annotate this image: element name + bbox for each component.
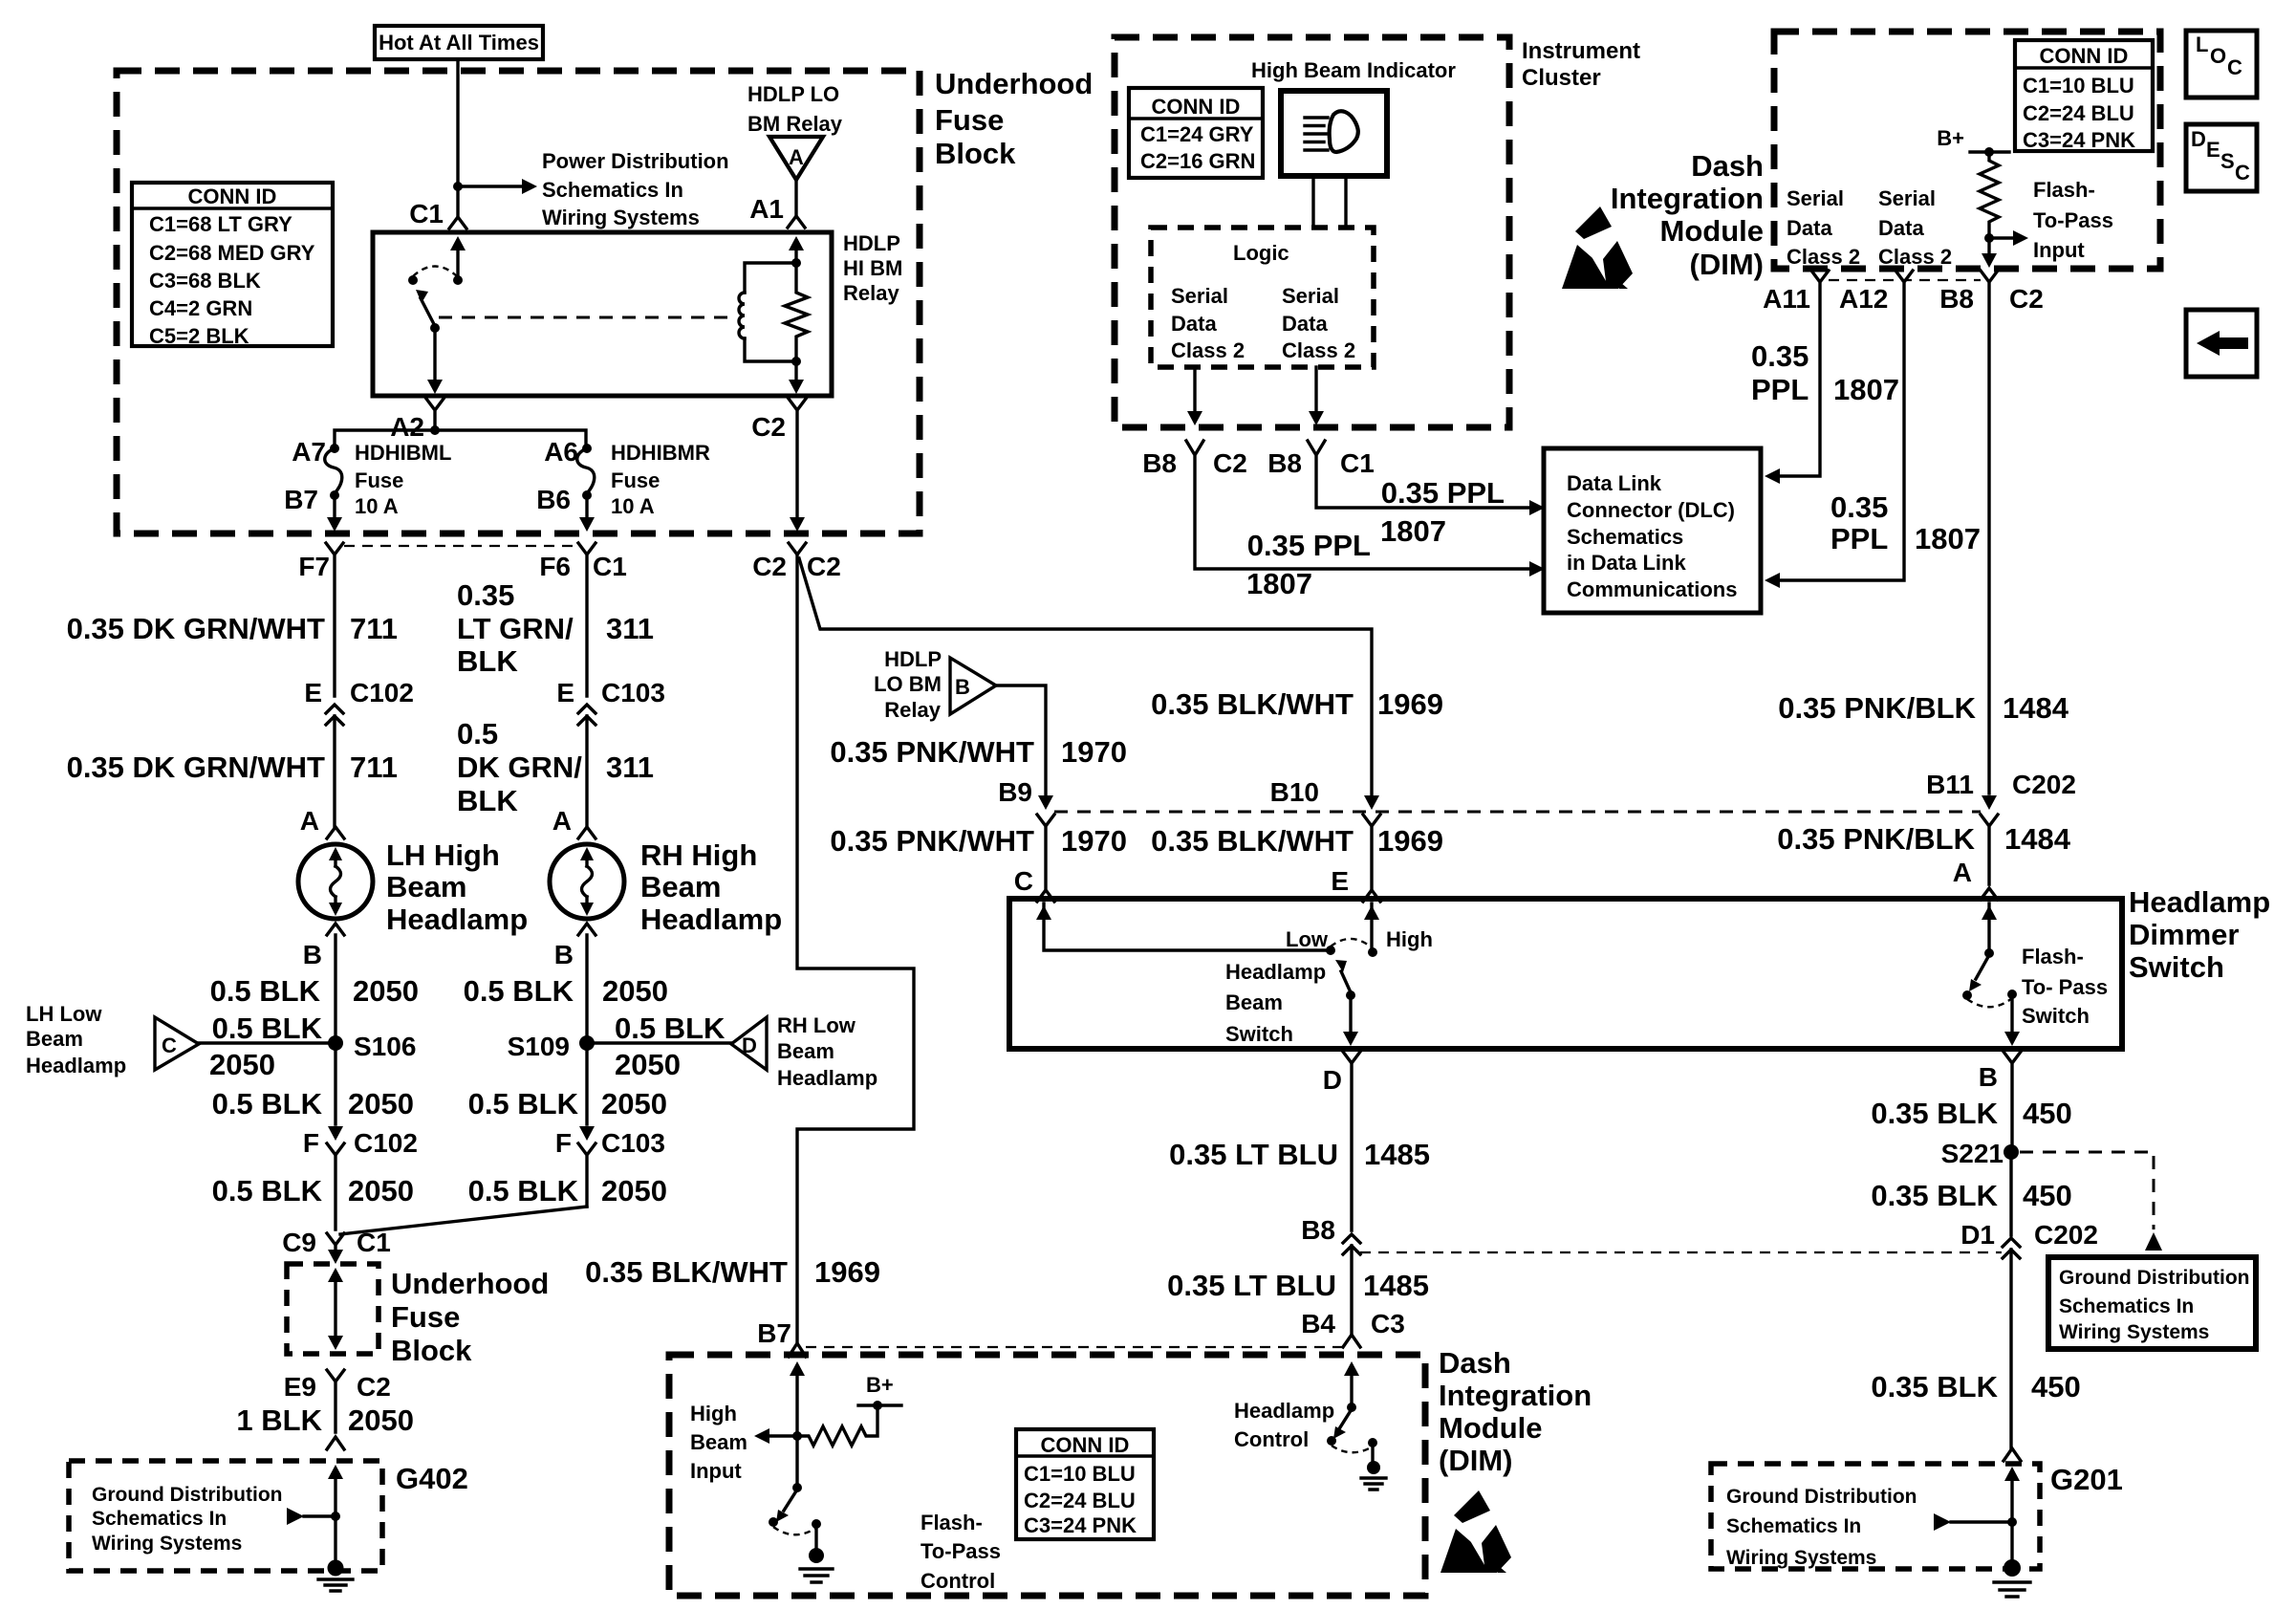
- svg-text:C202: C202: [2034, 1220, 2098, 1250]
- svg-text:0.5 BLK: 0.5 BLK: [464, 974, 574, 1008]
- DESC reference box: [2186, 124, 2257, 191]
- lamp RH High Beam Headlamp: [550, 844, 624, 919]
- data link connector DLC box: [1544, 448, 1761, 613]
- svg-text:Beam: Beam: [26, 1027, 83, 1051]
- svg-text:F: F: [555, 1128, 572, 1158]
- svg-text:0.35 PNK/BLK: 0.35 PNK/BLK: [1777, 822, 1975, 856]
- svg-text:A7: A7: [292, 437, 326, 467]
- svg-text:BM Relay: BM Relay: [747, 112, 843, 136]
- wire: tap down to pin B8 with arrow: [1987, 238, 1990, 254]
- contact High: [1368, 947, 1377, 957]
- svg-text:HDLP LO: HDLP LO: [747, 82, 839, 106]
- wire: logic to pin B8 C2: [1193, 367, 1196, 417]
- svg-text:Class 2: Class 2: [1878, 245, 1952, 269]
- svg-text:0.5 BLK: 0.5 BLK: [468, 1087, 579, 1120]
- svg-text:1484: 1484: [2004, 822, 2071, 856]
- DIM dashed box: [1774, 32, 2160, 269]
- flash-to-pass lower contact: [1962, 990, 1972, 1000]
- svg-text:PPL: PPL: [1830, 522, 1888, 555]
- splice S106: [328, 1035, 343, 1051]
- svg-text:Ground Distribution: Ground Distribution: [1726, 1486, 1917, 1508]
- flash-to-pass upper contact: [1984, 948, 1994, 958]
- relay switch movable blade: [421, 298, 435, 326]
- connector C202 thin dashed line (lower): [1360, 1251, 2002, 1253]
- wire: S106 to LH low beam headlamp triangle C: [199, 1041, 336, 1044]
- svg-text:A12: A12: [1839, 284, 1888, 314]
- DIM pin connector dashed line: [1829, 279, 1981, 281]
- svg-text:A: A: [552, 806, 572, 836]
- svg-text:Beam: Beam: [690, 1430, 747, 1454]
- svg-text:C2=16 GRN: C2=16 GRN: [1140, 149, 1255, 173]
- svg-text:B+: B+: [866, 1373, 894, 1397]
- wire through fuse block with arrows: [334, 1274, 336, 1337]
- flash-to-pass switch blade: [1976, 955, 1989, 979]
- svg-text:2050: 2050: [601, 1087, 667, 1120]
- logic dashed box: [1151, 228, 1374, 367]
- svg-text:E: E: [304, 678, 322, 707]
- flash-to-pass control upper contact: [792, 1483, 802, 1492]
- svg-text:C1=10 BLU: C1=10 BLU: [2023, 74, 2134, 98]
- svg-text:BLK: BLK: [457, 644, 518, 678]
- fuse HDHIBMR terminal B6: [582, 490, 592, 500]
- svg-text:0.35 BLK/WHT: 0.35 BLK/WHT: [1151, 824, 1354, 858]
- svg-text:B: B: [1979, 1062, 1998, 1092]
- wire: fuse B7 down to F7 with arrow: [333, 495, 336, 516]
- svg-text:Data: Data: [1878, 216, 1924, 240]
- node: high beam input junction: [792, 1431, 802, 1441]
- svg-text:10 A: 10 A: [611, 494, 655, 518]
- svg-text:CONN ID: CONN ID: [1152, 95, 1241, 119]
- svg-text:To- Pass: To- Pass: [2022, 975, 2108, 999]
- fuse HDHIBMR element: [577, 448, 595, 493]
- svg-text:0.5 BLK: 0.5 BLK: [468, 1174, 579, 1207]
- svg-text:C: C: [2235, 161, 2250, 185]
- connector to G201: [2004, 1448, 2021, 1461]
- svg-text:1485: 1485: [1363, 1269, 1429, 1302]
- svg-text:S: S: [2220, 149, 2235, 173]
- svg-text:0.35 BLK/WHT: 0.35 BLK/WHT: [585, 1255, 788, 1289]
- wire: logic to pin B8 C1: [1314, 367, 1317, 417]
- svg-text:G201: G201: [2050, 1463, 2123, 1496]
- svg-text:C1: C1: [409, 199, 444, 228]
- flash-to-pass control lower contact: [769, 1517, 778, 1527]
- svg-text:C1: C1: [593, 552, 627, 581]
- svg-text:0.35 BLK: 0.35 BLK: [1871, 1370, 1998, 1403]
- svg-text:C4=2 GRN: C4=2 GRN: [149, 296, 252, 320]
- svg-text:F6: F6: [539, 552, 571, 581]
- svg-text:2050: 2050: [209, 1048, 275, 1081]
- svg-text:2050: 2050: [348, 1174, 414, 1207]
- svg-text:C103: C103: [601, 1128, 665, 1158]
- svg-text:Wiring Systems: Wiring Systems: [1726, 1547, 1876, 1569]
- svg-text:Module: Module: [1439, 1411, 1543, 1445]
- svg-text:C1=10 BLU: C1=10 BLU: [1024, 1462, 1136, 1486]
- svg-text:1 BLK: 1 BLK: [236, 1403, 322, 1437]
- svg-text:Ground Distribution: Ground Distribution: [2059, 1267, 2249, 1289]
- svg-text:S109: S109: [508, 1032, 570, 1061]
- headlamp beam switch blade: [1341, 971, 1351, 992]
- svg-text:To-Pass: To-Pass: [2033, 208, 2113, 232]
- relay box HDLP HI BM Relay: [373, 232, 832, 396]
- wire: flash-to-pass contact to pin B with arrow: [2010, 994, 2013, 1033]
- svg-text:1969: 1969: [1377, 687, 1443, 721]
- svg-text:Connector (DLC): Connector (DLC): [1567, 498, 1735, 522]
- svg-text:B+: B+: [1937, 126, 1964, 150]
- relay switch alternate contact node: [408, 275, 418, 285]
- svg-text:Serial: Serial: [1878, 186, 1936, 210]
- ESD symbol near DIM: [1562, 207, 1633, 294]
- flash-to-pass output contact: [2007, 990, 2017, 999]
- svg-text:CONN ID: CONN ID: [188, 185, 277, 208]
- underhood fuse block dashed outline: [117, 71, 920, 533]
- svg-text:Schematics: Schematics: [1567, 525, 1683, 549]
- svg-text:LH High: LH High: [386, 838, 500, 872]
- wire: S109 to RH low beam headlamp triangle D: [587, 1041, 731, 1044]
- svg-text:C: C: [1014, 866, 1033, 896]
- node: A2 bus junction: [430, 425, 440, 435]
- flash-to-pass control ground contact: [812, 1519, 821, 1529]
- connector to G402: [327, 1437, 344, 1449]
- svg-text:B6: B6: [536, 485, 571, 514]
- svg-text:450: 450: [2023, 1097, 2072, 1130]
- arrow to flash-to-pass input: [1989, 236, 2015, 239]
- svg-text:S106: S106: [354, 1032, 416, 1061]
- triangle B HDLP LO BM Relay: [950, 658, 996, 714]
- svg-text:E9: E9: [284, 1372, 316, 1402]
- wire: battery feed from Hot At All Times down to relay C1: [456, 59, 459, 217]
- svg-text:Underhood: Underhood: [391, 1267, 549, 1300]
- svg-text:0.35 DK GRN/WHT: 0.35 DK GRN/WHT: [67, 751, 325, 784]
- svg-text:Serial: Serial: [1282, 284, 1339, 308]
- svg-text:Schematics In: Schematics In: [1726, 1515, 1861, 1537]
- ground G201 dashed box: [1711, 1464, 2040, 1569]
- back arrow box: [2186, 310, 2257, 377]
- flash-to-pass control throw dashed arc: [773, 1527, 816, 1534]
- svg-text:C2=24 BLU: C2=24 BLU: [2023, 101, 2134, 125]
- svg-text:Integration: Integration: [1611, 182, 1764, 215]
- svg-text:Dimmer: Dimmer: [2129, 918, 2239, 951]
- svg-text:DK GRN/: DK GRN/: [457, 751, 582, 784]
- svg-text:Serial: Serial: [1787, 186, 1844, 210]
- svg-text:0.5: 0.5: [457, 717, 498, 751]
- headlamp control lower contact: [1327, 1436, 1336, 1446]
- high beam indicator box: [1281, 91, 1387, 176]
- ESD symbol in DIM: [1440, 1490, 1511, 1578]
- svg-text:Dash: Dash: [1691, 149, 1764, 183]
- svg-text:Wiring Systems: Wiring Systems: [2059, 1321, 2209, 1343]
- svg-text:D: D: [2191, 127, 2206, 151]
- svg-text:Beam: Beam: [386, 870, 466, 903]
- svg-text:B4: B4: [1301, 1309, 1335, 1338]
- svg-text:C2: C2: [807, 552, 841, 581]
- svg-text:C1: C1: [1340, 448, 1375, 478]
- dashed ground reference from S221: [2020, 1152, 2154, 1229]
- svg-text:CONN ID: CONN ID: [2040, 44, 2129, 68]
- svg-text:1969: 1969: [814, 1255, 880, 1289]
- DIM bottom dashed box: [669, 1355, 1425, 1596]
- svg-text:BLK: BLK: [457, 784, 518, 817]
- svg-text:Fuse: Fuse: [935, 103, 1004, 137]
- CONN ID table (DIM): [2015, 40, 2153, 151]
- svg-text:A: A: [1953, 858, 1972, 887]
- fuse HDHIBML element: [325, 448, 342, 493]
- splice S109: [579, 1035, 595, 1051]
- svg-text:2050: 2050: [601, 1174, 667, 1207]
- svg-text:Schematics In: Schematics In: [92, 1508, 227, 1530]
- svg-text:450: 450: [2023, 1179, 2072, 1212]
- svg-text:Switch: Switch: [2022, 1004, 2090, 1028]
- svg-text:Flash-: Flash-: [2033, 178, 2095, 202]
- wire: C2 output down to C2 inline connector with arrow: [790, 517, 805, 532]
- arrow to high beam input: [766, 1434, 797, 1437]
- connector F6 female fork: [578, 543, 596, 696]
- svg-text:C1=24 GRY: C1=24 GRY: [1140, 122, 1254, 146]
- svg-text:Dash: Dash: [1439, 1346, 1511, 1380]
- CONN ID table (instrument cluster): [1129, 88, 1263, 178]
- svg-text:O: O: [2210, 44, 2226, 68]
- relay coil branch wire: [745, 263, 796, 293]
- svg-text:E: E: [2206, 138, 2220, 162]
- svg-text:E: E: [556, 678, 574, 707]
- svg-text:C103: C103: [601, 678, 665, 707]
- contact Low: [1326, 946, 1335, 955]
- wire: RH ground wire diagonal to C9 junction: [340, 1207, 587, 1234]
- relay coil windings: [739, 293, 745, 338]
- svg-text:CONN ID: CONN ID: [1041, 1433, 1130, 1457]
- svg-text:C2: C2: [2009, 284, 2044, 314]
- svg-text:0.35: 0.35: [1751, 339, 1809, 373]
- svg-text:C3: C3: [1371, 1309, 1405, 1338]
- svg-text:D: D: [742, 1033, 757, 1057]
- svg-text:A6: A6: [544, 437, 578, 467]
- triangle C LH low beam headlamp: [155, 1017, 199, 1070]
- wire: B4 headlamp control with up arrow: [1350, 1369, 1353, 1404]
- svg-text:1970: 1970: [1061, 824, 1127, 858]
- svg-text:C5=2 BLK: C5=2 BLK: [149, 324, 249, 348]
- svg-text:2050: 2050: [348, 1087, 414, 1120]
- svg-text:Hot At All Times: Hot At All Times: [379, 31, 539, 54]
- svg-text:D: D: [1323, 1065, 1342, 1095]
- svg-text:Control: Control: [921, 1569, 995, 1593]
- svg-text:F7: F7: [298, 552, 330, 581]
- svg-text:Instrument: Instrument: [1522, 38, 1640, 64]
- svg-text:Beam: Beam: [1225, 990, 1283, 1014]
- svg-text:Data Link: Data Link: [1567, 471, 1662, 495]
- svg-text:10 A: 10 A: [355, 494, 399, 518]
- ground distribution tap arrow (G201): [1934, 1513, 1951, 1531]
- svg-text:Logic: Logic: [1233, 241, 1289, 265]
- svg-text:0.5 BLK: 0.5 BLK: [615, 1012, 726, 1045]
- svg-text:0.5 BLK: 0.5 BLK: [212, 1012, 323, 1045]
- dashed mechanical link from switch to relay coil: [439, 316, 732, 319]
- svg-text:HI BM: HI BM: [843, 256, 902, 280]
- svg-text:0.35 BLK: 0.35 BLK: [1871, 1179, 1998, 1212]
- svg-text:Wiring Systems: Wiring Systems: [542, 206, 700, 229]
- svg-text:Cluster: Cluster: [1522, 65, 1601, 91]
- svg-text:Data: Data: [1282, 312, 1328, 336]
- node: coil bottom junction: [791, 357, 801, 366]
- headlamp control ground contact: [1368, 1438, 1377, 1447]
- svg-text:2050: 2050: [353, 974, 419, 1008]
- relay switch throw dashed arc: [413, 267, 457, 277]
- svg-text:Data: Data: [1171, 312, 1217, 336]
- pin A11 connector: [1775, 271, 1829, 476]
- lamp LH High Beam Headlamp: [298, 844, 373, 919]
- svg-text:0.35 PNK/WHT: 0.35 PNK/WHT: [830, 735, 1034, 769]
- fuse HDHIBML terminal A7: [330, 444, 339, 453]
- svg-text:HDHIBMR: HDHIBMR: [611, 441, 710, 465]
- svg-text:L: L: [2196, 33, 2208, 56]
- wire: triangle A to pin A1: [794, 180, 797, 214]
- svg-text:711: 711: [350, 751, 398, 784]
- svg-text:2050: 2050: [615, 1048, 681, 1081]
- svg-text:F: F: [303, 1128, 319, 1158]
- wire: fuse B6 down to F6 with arrow: [585, 495, 588, 516]
- svg-text:0.5 BLK: 0.5 BLK: [212, 1087, 323, 1120]
- svg-text:B: B: [303, 940, 322, 969]
- svg-text:A: A: [789, 145, 804, 169]
- svg-text:C1: C1: [357, 1228, 391, 1257]
- svg-text:Communications: Communications: [1567, 577, 1737, 601]
- svg-text:E: E: [1331, 866, 1349, 896]
- instrument cluster dashed box: [1115, 37, 1509, 427]
- svg-text:C2=68 MED GRY: C2=68 MED GRY: [149, 241, 315, 265]
- svg-text:1807: 1807: [1246, 567, 1312, 600]
- wire: S221 to D1: [2009, 1160, 2012, 1235]
- connector A1 female fork: [788, 216, 805, 228]
- svg-text:C: C: [162, 1033, 177, 1057]
- svg-text:Fuse: Fuse: [611, 468, 660, 492]
- svg-text:PPL: PPL: [1751, 373, 1809, 406]
- wire: relay blade to pin A2 with down arrow: [433, 328, 436, 381]
- Hot At All Times box: [375, 26, 543, 59]
- svg-text:Ground Distribution: Ground Distribution: [92, 1484, 282, 1506]
- svg-text:Schematics In: Schematics In: [2059, 1295, 2194, 1317]
- svg-text:Input: Input: [690, 1459, 742, 1483]
- ground stub of flash-to-pass control: [814, 1524, 817, 1547]
- wire: beam switch to pin D with arrow: [1349, 995, 1352, 1033]
- ground distribution tap arrow: [287, 1508, 304, 1525]
- svg-text:Headlamp: Headlamp: [1234, 1399, 1334, 1423]
- relay switch fixed contact node: [453, 275, 463, 285]
- svg-text:711: 711: [350, 612, 398, 645]
- svg-text:0.35 BLK: 0.35 BLK: [1871, 1097, 1998, 1130]
- pin A2 connector below relay: [426, 399, 444, 430]
- svg-text:A11: A11: [1763, 284, 1810, 314]
- svg-text:Headlamp: Headlamp: [1225, 960, 1326, 984]
- svg-text:1485: 1485: [1364, 1138, 1430, 1171]
- ground distribution note box (solid): [2048, 1257, 2256, 1349]
- arrow up at relay pin A1 inside box: [789, 236, 804, 250]
- svg-text:Wiring Systems: Wiring Systems: [92, 1533, 242, 1555]
- relay resistor element: [785, 241, 808, 361]
- svg-text:0.35 PPL: 0.35 PPL: [1381, 476, 1505, 510]
- svg-text:Module: Module: [1660, 214, 1765, 248]
- svg-text:A1: A1: [749, 194, 784, 224]
- triangle D RH low beam headlamp: [731, 1017, 767, 1070]
- headlamp dimmer switch box: [1009, 899, 2122, 1049]
- relay coil lower wire: [745, 338, 796, 361]
- flash-to-pass control blade: [784, 1490, 797, 1511]
- svg-text:LH Low: LH Low: [26, 1002, 102, 1026]
- svg-text:Headlamp: Headlamp: [2129, 885, 2270, 919]
- svg-text:High Beam Indicator: High Beam Indicator: [1251, 58, 1456, 82]
- svg-text:Integration: Integration: [1439, 1379, 1592, 1412]
- wire: tap to power distribution reference: [458, 185, 524, 187]
- svg-text:Low: Low: [1286, 927, 1329, 951]
- svg-text:0.35 PNK/BLK: 0.35 PNK/BLK: [1778, 691, 1976, 725]
- svg-text:A2: A2: [390, 412, 424, 442]
- svg-text:B9: B9: [998, 777, 1032, 807]
- fuse HDHIBML terminal B7: [330, 490, 339, 500]
- wire: coil bottom to pin C2 with down arrow: [794, 361, 797, 381]
- headlamp control upper contact: [1347, 1403, 1356, 1412]
- connector C1 female fork: [449, 217, 466, 228]
- svg-text:High: High: [1386, 927, 1433, 951]
- svg-text:1484: 1484: [2003, 691, 2069, 725]
- svg-text:C3=24 PNK: C3=24 PNK: [2023, 128, 2135, 152]
- svg-text:D1: D1: [1960, 1220, 1995, 1250]
- svg-text:C2: C2: [752, 552, 787, 581]
- headlamp beam switch throw dashed arc: [1331, 939, 1373, 948]
- svg-text:450: 450: [2031, 1370, 2081, 1403]
- svg-text:Headlamp: Headlamp: [777, 1066, 877, 1090]
- relay switch common wire with up arrow: [456, 241, 459, 280]
- CONN ID table (underhood fuse block): [132, 183, 333, 346]
- svg-text:Underhood: Underhood: [935, 67, 1093, 100]
- relay switch lower contact node: [430, 323, 440, 333]
- svg-text:B: B: [554, 940, 574, 969]
- svg-text:311: 311: [606, 612, 654, 645]
- svg-text:LO BM: LO BM: [874, 672, 942, 696]
- inline connector C2 C2 female fork: [789, 543, 806, 555]
- LOC reference box: [2186, 31, 2257, 98]
- svg-text:C102: C102: [354, 1128, 418, 1158]
- svg-text:Class 2: Class 2: [1282, 338, 1355, 362]
- svg-text:2050: 2050: [602, 974, 668, 1008]
- ground G402 dashed box: [69, 1461, 382, 1571]
- ground G402 symbol: [328, 1560, 344, 1577]
- svg-text:Fuse: Fuse: [391, 1300, 460, 1334]
- svg-text:RH Low: RH Low: [777, 1013, 856, 1037]
- ground G201 symbol: [2004, 1559, 2021, 1577]
- wire: junction to flash-to-pass control switch: [795, 1436, 798, 1485]
- wire: C2 main vertical to DIM B7 with routing jog: [797, 555, 914, 1341]
- svg-text:in Data Link: in Data Link: [1567, 551, 1686, 575]
- svg-text:0.35: 0.35: [457, 578, 514, 612]
- svg-text:(DIM): (DIM): [1439, 1444, 1512, 1477]
- svg-text:1807: 1807: [1915, 522, 1981, 555]
- svg-text:Beam: Beam: [640, 870, 721, 903]
- connector F7 female fork: [326, 543, 343, 696]
- svg-text:0.35 LT BLU: 0.35 LT BLU: [1167, 1269, 1336, 1302]
- connector C3 thin dashed line: [806, 1346, 1343, 1348]
- wire: fuse feed bus from A2: [335, 430, 586, 446]
- svg-text:Relay: Relay: [884, 698, 941, 722]
- wire: pin A into switch to flash-to-pass contact: [1987, 903, 1990, 950]
- svg-text:0.35 LT BLU: 0.35 LT BLU: [1169, 1138, 1338, 1171]
- svg-text:1807: 1807: [1380, 514, 1446, 548]
- headlamp control blade: [1340, 1409, 1352, 1427]
- svg-text:Fuse: Fuse: [355, 468, 403, 492]
- svg-text:S221: S221: [1941, 1139, 2004, 1168]
- wire: pin C into switch to Low contact: [1044, 903, 1331, 950]
- svg-text:Flash-: Flash-: [921, 1511, 983, 1534]
- svg-text:0.35 BLK/WHT: 0.35 BLK/WHT: [1151, 687, 1354, 721]
- svg-text:A: A: [300, 806, 319, 836]
- wire: S109 down to F C103: [585, 1051, 588, 1124]
- svg-text:C3=68 BLK: C3=68 BLK: [149, 269, 261, 293]
